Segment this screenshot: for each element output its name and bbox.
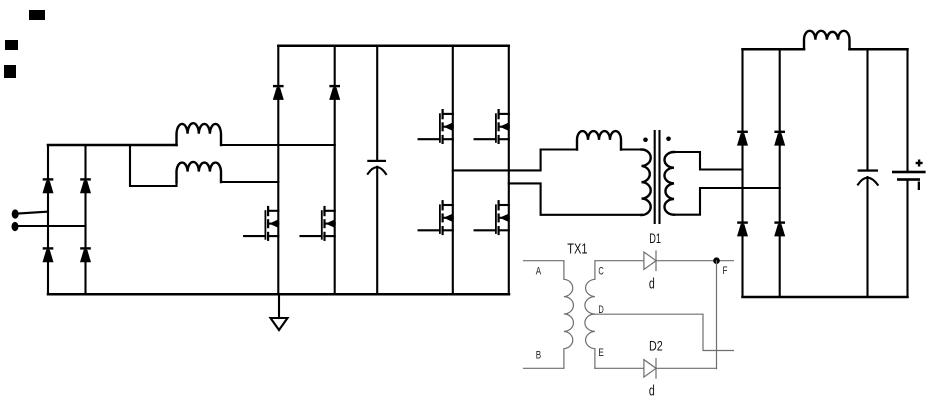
transformer T1 core (655, 131, 660, 223)
wire (674, 188, 780, 215)
capacitor C1 (367, 160, 386, 174)
capacitor C2 (858, 169, 878, 184)
node input terminal 1 (12, 209, 19, 218)
diode bridge D4 (80, 178, 91, 193)
wire (453, 150, 577, 171)
output diode D11 (737, 221, 748, 236)
wire (376, 167, 378, 294)
node F (713, 257, 720, 264)
node dot secondary (666, 137, 671, 142)
svg-text:D: D (598, 304, 604, 316)
diode bridge D5 (43, 247, 54, 262)
wire (376, 46, 378, 160)
diode bridge D3 (43, 178, 54, 193)
wire (17, 225, 86, 227)
wire (674, 152, 743, 170)
wire (716, 261, 718, 369)
inductor L2 (177, 162, 222, 182)
svg-text:TX1: TX1 (567, 242, 587, 258)
wire net D (594, 314, 734, 350)
svg-text:E: E (598, 347, 603, 359)
transformer TX1 primary (564, 261, 574, 369)
output diode D10 (774, 131, 785, 146)
diode D1 (644, 251, 656, 271)
svg-text:d: d (649, 276, 655, 292)
mosfet Q3 (419, 109, 453, 144)
wire (221, 144, 335, 146)
svg-text:A: A (536, 265, 542, 277)
wire (509, 183, 642, 214)
inductor L3 (577, 131, 621, 149)
transformer TX1 secondary (585, 261, 595, 369)
svg-text:D2: D2 (649, 337, 663, 353)
wire (48, 293, 509, 296)
wire (17, 212, 48, 214)
wire net C (596, 260, 644, 262)
wire (850, 48, 908, 51)
wire (48, 144, 177, 147)
wire (84, 145, 86, 294)
boost diode D8 (329, 85, 340, 100)
wire net E (595, 367, 644, 369)
wire (221, 181, 278, 183)
boost diode D7 (273, 85, 284, 100)
inductor L4 (804, 31, 850, 49)
svg-text:C: C (598, 266, 604, 278)
wire (278, 45, 509, 48)
wire (452, 46, 454, 294)
svg-text:d: d (649, 384, 655, 400)
wire (779, 49, 781, 297)
inductor L1 (177, 123, 222, 145)
mosfet Q6 (475, 200, 509, 235)
wire (743, 48, 805, 51)
transformer T1 primary winding (642, 150, 651, 216)
wire (621, 148, 642, 150)
mosfet Q5 (419, 200, 453, 235)
wire (130, 145, 177, 186)
battery V1 (892, 49, 926, 297)
wire net A (524, 260, 564, 262)
wire (47, 145, 49, 294)
output diode D12 (774, 221, 785, 236)
node dot primary (643, 138, 648, 143)
wire (334, 46, 336, 294)
wire (656, 367, 717, 369)
wire (508, 46, 510, 294)
output diode D9 (737, 131, 748, 146)
diode D2 (644, 359, 656, 379)
wire (743, 296, 908, 299)
node input terminal 2 (12, 222, 19, 231)
wire (866, 49, 868, 169)
mosfet Q4 (475, 109, 509, 144)
transformer T1 secondary winding (664, 152, 674, 215)
wire (741, 49, 743, 297)
svg-text:B: B (536, 350, 541, 362)
wire (656, 260, 733, 262)
ground (271, 295, 288, 331)
mosfet Q1 (244, 206, 278, 241)
svg-text:F: F (723, 265, 728, 277)
svg-text:D1: D1 (649, 230, 661, 246)
wire (866, 177, 868, 297)
diode bridge D6 (80, 247, 91, 262)
wire net B (524, 367, 564, 369)
mosfet Q2 (301, 206, 335, 241)
wire (277, 46, 279, 294)
